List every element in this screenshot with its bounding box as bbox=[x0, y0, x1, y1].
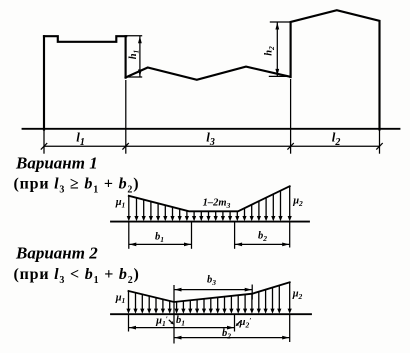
right building outline bbox=[291, 10, 380, 129]
left wall extension below ground bbox=[43, 130, 45, 154]
dimension b2 variant 1 bbox=[235, 243, 290, 247]
variant 1 extension lines bbox=[128, 222, 130, 249]
low roof zigzag bbox=[126, 67, 290, 80]
variant 1 load profile bbox=[129, 186, 290, 211]
right wall extension below ground bbox=[379, 130, 381, 154]
variant 2 load profile bbox=[129, 282, 290, 302]
span dimension line bbox=[41, 143, 383, 150]
dimension h2 bbox=[269, 22, 291, 76]
leader arrow mu1 prime bbox=[169, 320, 174, 325]
svg-text:Вариант 2: Вариант 2 bbox=[15, 244, 98, 263]
variant 2 left edge with arrow bbox=[126, 291, 130, 314]
dimension b3 bbox=[174, 288, 252, 292]
left building wall below low roof (thin) bbox=[125, 80, 127, 154]
variant 2 lower extension lines bbox=[128, 314, 130, 331]
variant 1 left edge with arrow bbox=[127, 196, 131, 221]
variant 2 load arrows bbox=[133, 285, 281, 313]
dimension row b1 variant 2 bbox=[129, 326, 235, 330]
svg-text:1–2m3: 1–2m3 bbox=[203, 198, 231, 211]
variant 2 right edge with arrow bbox=[288, 282, 292, 314]
leader arrow mu2 prime bbox=[236, 321, 241, 326]
variant 2 baseline bbox=[111, 313, 311, 315]
right building wall below low roof (thin) bbox=[290, 79, 292, 154]
variant 1 right edge with arrow bbox=[288, 186, 292, 221]
left building outline with parapets bbox=[44, 36, 126, 129]
extension line b3 right bbox=[251, 285, 253, 300]
ground line bbox=[23, 128, 400, 130]
dimension h1 bbox=[126, 36, 142, 77]
dimension row b2 variant 2 bbox=[174, 336, 290, 340]
variant 1 baseline bbox=[111, 221, 309, 223]
variant 1 load arrows bbox=[134, 190, 282, 221]
dimension b1 variant 1 bbox=[129, 243, 192, 247]
extension line b3 left bbox=[173, 285, 175, 344]
svg-text:Вариант 1: Вариант 1 bbox=[15, 154, 98, 173]
